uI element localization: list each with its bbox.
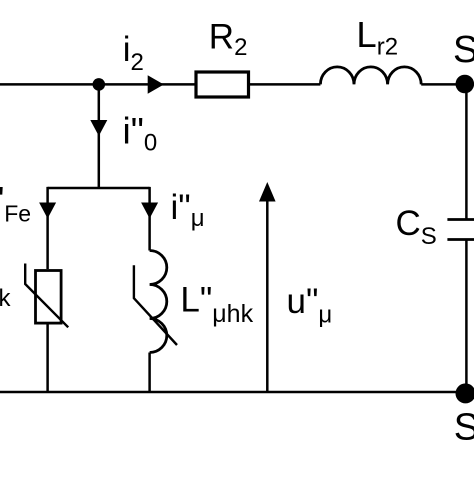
wire right branch upper: [148, 187, 151, 251]
current arrow i"0: [90, 120, 107, 136]
wire capacitor down to node S bottom: [465, 240, 468, 394]
wire junction down to split bar: [98, 84, 101, 188]
bottom wire: [0, 391, 466, 394]
inductor L"muhk nonlinear arrow: [134, 265, 177, 345]
wire node S top down to capacitor: [465, 84, 468, 219]
wire inductor Lr2 to node S top: [421, 83, 466, 86]
varistor RFe rectangle: [36, 271, 62, 324]
voltage arrow u"mu head: [259, 182, 276, 202]
wire right branch lower: [148, 353, 151, 394]
svg-text:S: S: [453, 29, 474, 71]
junction dot top: [93, 78, 106, 91]
wire junction to resistor R2: [99, 83, 195, 86]
inductor L"muhk coil: [150, 251, 167, 353]
wire top left from edge to junction: [0, 83, 99, 86]
split bar wire: [48, 187, 150, 190]
inductor Lr2: [320, 67, 421, 85]
capacitor CS bottom plate: [447, 238, 474, 241]
svg-text:k: k: [0, 285, 12, 312]
wire left branch lower: [46, 322, 49, 393]
node S top terminal dot: [456, 75, 474, 94]
node S bottom terminal dot: [456, 383, 474, 403]
svg-text:S: S: [454, 407, 474, 449]
wire left branch upper: [46, 187, 49, 269]
current arrow i2: [148, 75, 164, 94]
wire resistor R2 to inductor Lr2: [250, 83, 320, 86]
capacitor CS top plate: [447, 218, 474, 221]
voltage arrow u"mu line: [266, 199, 269, 392]
varistor RFe nonlinear arrow: [25, 264, 68, 328]
current arrow i"Fe: [39, 203, 56, 219]
resistor R2: [196, 72, 249, 97]
current arrow i"mu: [141, 203, 158, 219]
